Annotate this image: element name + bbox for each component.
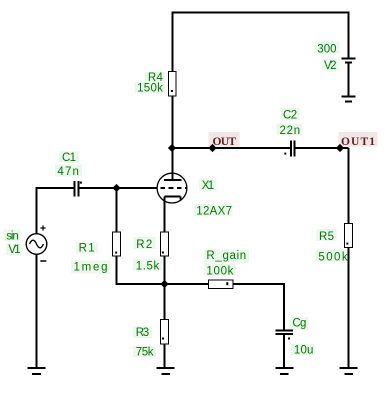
svg-text:12AX7: 12AX7 [196, 206, 232, 218]
svg-text:C1: C1 [62, 152, 76, 164]
svg-text:R3: R3 [136, 327, 150, 339]
svg-text:500k: 500k [318, 252, 347, 264]
svg-text:47n: 47n [57, 166, 79, 178]
svg-text:R2: R2 [136, 239, 152, 251]
svg-text:R1: R1 [79, 242, 95, 254]
svg-text:10u: 10u [294, 345, 314, 357]
svg-text:300: 300 [317, 44, 336, 56]
svg-text:R_gain: R_gain [206, 250, 246, 262]
svg-text:Cg: Cg [292, 318, 306, 330]
svg-text:V2: V2 [324, 60, 337, 72]
svg-text:X1: X1 [202, 180, 214, 192]
svg-text:75k: 75k [136, 347, 154, 359]
svg-text:1.5k: 1.5k [136, 261, 160, 273]
svg-text:1meg: 1meg [74, 262, 108, 274]
svg-text:OUT1: OUT1 [341, 136, 375, 148]
svg-text:22n: 22n [280, 125, 301, 137]
svg-text:C2: C2 [283, 110, 297, 122]
svg-text:150k: 150k [137, 82, 163, 94]
svg-text:V1: V1 [8, 244, 20, 256]
svg-text:OUT: OUT [213, 136, 237, 148]
svg-text:100k: 100k [206, 265, 233, 277]
svg-text:R5: R5 [319, 231, 334, 243]
svg-text:sin: sin [6, 230, 19, 242]
